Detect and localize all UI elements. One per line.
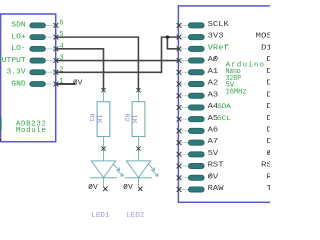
pin 4 LO- of ADB232 module bbox=[11, 43, 64, 53]
svg-text:SDN: SDN bbox=[11, 22, 25, 30]
svg-text:GND: GND bbox=[11, 80, 26, 88]
svg-text:RST: RST bbox=[208, 162, 225, 170]
pin D4 of Arduino Nano (right side, clipped) bbox=[267, 115, 279, 123]
label LED1 bbox=[91, 212, 110, 220]
svg-text:A3: A3 bbox=[208, 91, 219, 99]
clipped pin mark at lower left edge bbox=[0, 139, 1, 141]
pin TX of Arduino Nano (right side, clipped) bbox=[267, 185, 279, 193]
module M1 ADB232 box bbox=[1, 14, 56, 142]
pin 3 OUTPUT of ADB232 module bbox=[0, 55, 64, 65]
module U1 Arduino Nano box bbox=[178, 6, 273, 202]
pin 2 3.3V of ADB232 module bbox=[7, 66, 64, 76]
pin 6 SDN of ADB232 module bbox=[11, 19, 63, 29]
power symbol 0V at LED2 cathode bbox=[123, 184, 133, 192]
svg-text:OUTPUT: OUTPUT bbox=[0, 57, 26, 65]
svg-text:A6: A6 bbox=[208, 126, 219, 134]
pin RX of Arduino Nano (right side, clipped) bbox=[267, 173, 279, 181]
svg-text:D2: D2 bbox=[267, 138, 271, 146]
svg-text:D5: D5 bbox=[267, 103, 271, 111]
label LED2 bbox=[126, 212, 144, 220]
wire LO+ (pin5) to R2 top: net LOPLUS bbox=[56, 37, 139, 90]
pin SCLK of Arduino Nano (left side) bbox=[177, 21, 230, 29]
svg-text:SDA: SDA bbox=[217, 103, 231, 110]
module U1 Arduino Nano 328P 5V 16MHz value label bbox=[226, 62, 264, 97]
pin 1 GND of ADB232 module bbox=[11, 78, 64, 88]
svg-text:RST: RST bbox=[261, 162, 270, 170]
junction on 3V3 net bbox=[166, 35, 169, 38]
resistor R1 1K bbox=[88, 88, 110, 161]
svg-text:0V: 0V bbox=[208, 173, 219, 181]
pin A5 of Arduino Nano (left side) bbox=[177, 115, 231, 123]
svg-text:5V: 5V bbox=[208, 150, 219, 158]
svg-text:A2: A2 bbox=[208, 80, 219, 88]
pin A3 of Arduino Nano (left side) bbox=[177, 91, 219, 99]
pin RST of Arduino Nano (left side) bbox=[177, 162, 225, 170]
svg-text:VRef: VRef bbox=[208, 44, 229, 52]
svg-text:3.3V: 3.3V bbox=[7, 69, 27, 77]
pin A0 of Arduino Nano (left side) bbox=[177, 56, 219, 64]
svg-text:1K: 1K bbox=[130, 114, 137, 124]
svg-text:LED1: LED1 bbox=[91, 212, 110, 220]
svg-text:R1: R1 bbox=[88, 113, 95, 122]
wire OUTPUT (pin3) to Arduino A0: net OUTPUT bbox=[56, 60, 179, 62]
pin A7 of Arduino Nano (left side) bbox=[177, 138, 219, 146]
svg-text:D8: D8 bbox=[267, 68, 271, 76]
svg-text:D4: D4 bbox=[267, 115, 271, 123]
svg-text:6: 6 bbox=[59, 19, 63, 27]
wire 3.3V (pin2) up and right to Arduino 3V3: net 3V3 bbox=[56, 37, 179, 72]
svg-text:Module: Module bbox=[16, 127, 46, 135]
pin A1 of Arduino Nano (left side) bbox=[177, 68, 219, 76]
pin 0V of Arduino Nano (right side, clipped) bbox=[267, 150, 279, 158]
svg-text:A0: A0 bbox=[208, 56, 219, 64]
pin D9 of Arduino Nano (right side, clipped) bbox=[267, 56, 278, 64]
svg-text:RX: RX bbox=[267, 173, 271, 181]
pin D3 of Arduino Nano (right side, clipped) bbox=[267, 126, 278, 134]
pin D6 of Arduino Nano (right side, clipped) bbox=[267, 91, 278, 99]
pin 5V of Arduino Nano (left side) bbox=[177, 150, 219, 158]
resistor R2 1K bbox=[123, 88, 145, 161]
clipped component stub at image left edge bbox=[0, 117, 2, 132]
svg-text:D6: D6 bbox=[267, 91, 271, 99]
svg-text:D3: D3 bbox=[267, 126, 271, 134]
svg-text:3V3: 3V3 bbox=[208, 33, 224, 41]
wire LO- (pin4) to R1 top: net LOMINUS bbox=[56, 49, 104, 90]
svg-text:TX: TX bbox=[267, 185, 271, 193]
pin D7 of Arduino Nano (right side, clipped) bbox=[267, 80, 278, 88]
module M1 ADB232 name label bbox=[16, 120, 46, 135]
pin A6 of Arduino Nano (left side) bbox=[177, 126, 219, 134]
svg-text:MOSI: MOSI bbox=[256, 33, 271, 41]
pin D5 of Arduino Nano (right side, clipped) bbox=[267, 103, 278, 111]
pin VRef of Arduino Nano (left side) bbox=[177, 44, 229, 52]
pin A2 of Arduino Nano (left side) bbox=[177, 80, 219, 88]
svg-text:1K: 1K bbox=[95, 114, 102, 124]
power symbol 0V at LED1 cathode bbox=[88, 184, 98, 192]
pin 3V3 of Arduino Nano (left side) bbox=[177, 33, 224, 41]
svg-text:LO+: LO+ bbox=[11, 33, 25, 41]
pin D12 of Arduino Nano (right side, clipped) bbox=[261, 44, 278, 52]
svg-text:A7: A7 bbox=[208, 138, 219, 146]
svg-text:A1: A1 bbox=[208, 68, 219, 76]
wire GND (pin1) to 0V power symbol bbox=[56, 83, 76, 85]
svg-text:R2: R2 bbox=[123, 113, 130, 122]
svg-text:D9: D9 bbox=[267, 56, 271, 64]
svg-text:D12: D12 bbox=[261, 44, 270, 52]
pin D2 of Arduino Nano (right side, clipped) bbox=[267, 138, 278, 146]
svg-text:LO-: LO- bbox=[11, 45, 25, 53]
svg-text:D7: D7 bbox=[267, 80, 271, 88]
svg-text:16MHz: 16MHz bbox=[226, 88, 247, 96]
wire branch from 3V3 net down to Arduino VRef bbox=[167, 37, 178, 49]
pin MOSI of Arduino Nano (right side, clipped) bbox=[256, 33, 278, 41]
pin 0V of Arduino Nano (left side) bbox=[177, 173, 219, 181]
pin RST of Arduino Nano (right side, clipped) bbox=[261, 162, 278, 170]
svg-text:RAW: RAW bbox=[208, 185, 225, 193]
LED LED2 bbox=[125, 161, 158, 191]
svg-text:LED2: LED2 bbox=[126, 212, 144, 220]
svg-text:SCL: SCL bbox=[217, 115, 231, 122]
pin D8 of Arduino Nano (right side, clipped) bbox=[267, 68, 278, 76]
svg-text:SCLK: SCLK bbox=[208, 21, 230, 29]
pin RAW of Arduino Nano (left side) bbox=[177, 185, 225, 193]
pin 5 LO+ of ADB232 module bbox=[11, 31, 63, 41]
LED LED1 bbox=[90, 161, 123, 191]
pin A4 of Arduino Nano (left side) bbox=[177, 103, 231, 111]
